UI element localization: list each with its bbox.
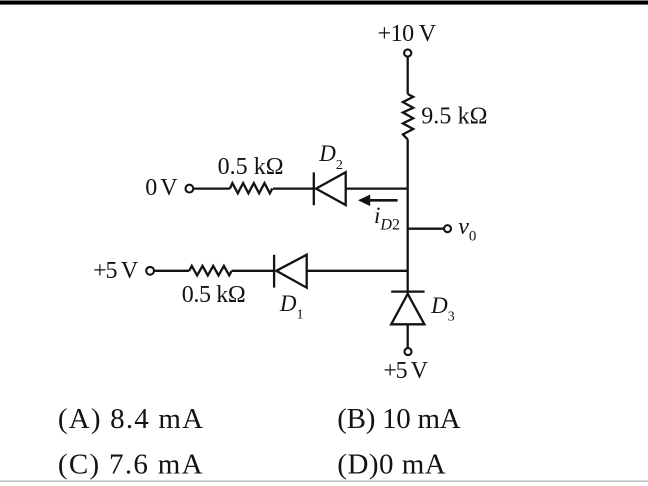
svg-text:v0: v0 [458,214,476,245]
svg-text:D2: D2 [318,141,343,173]
svg-text:0.5 kΩ: 0.5 kΩ [182,282,246,308]
svg-text:(B) 10 mA: (B) 10 mA [337,403,460,435]
svg-text:(C) 7.6 mA: (C) 7.6 mA [58,448,203,480]
svg-text:(A) 8.4 mA: (A) 8.4 mA [58,403,203,435]
svg-text:9.5 kΩ: 9.5 kΩ [421,104,487,130]
svg-text:0.5 kΩ: 0.5 kΩ [218,154,284,180]
svg-text:(D)0 mA: (D)0 mA [337,448,445,480]
svg-text:+10 V: +10 V [378,21,437,47]
svg-text:D1: D1 [279,291,304,323]
svg-text:iD2: iD2 [374,203,400,234]
svg-text:+5 V: +5 V [383,358,428,384]
svg-text:D3: D3 [430,293,455,324]
svg-text:0 V: 0 V [145,175,178,201]
svg-text:+5 V: +5 V [93,258,139,284]
